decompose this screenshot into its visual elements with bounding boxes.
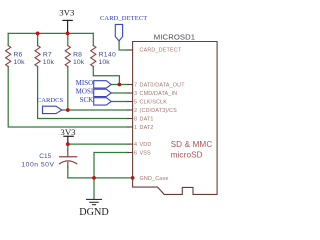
svg-text:CARD_DETECT: CARD_DETECT (140, 47, 182, 53)
svg-text:DAT2: DAT2 (140, 125, 154, 131)
svg-text:10k: 10k (13, 59, 25, 66)
svg-text:10k: 10k (43, 59, 55, 66)
svg-text:3V3: 3V3 (59, 7, 75, 17)
svg-text:7: 7 (134, 82, 137, 88)
svg-text:SD & MMC: SD & MMC (171, 140, 213, 149)
svg-text:C15: C15 (39, 153, 51, 160)
svg-text:MOSI: MOSI (76, 88, 94, 96)
svg-text:R140: R140 (99, 52, 116, 59)
svg-text:100n 50V: 100n 50V (21, 162, 54, 169)
svg-text:GND_Case: GND_Case (140, 176, 169, 182)
svg-text:MICROSD1: MICROSD1 (154, 32, 195, 41)
svg-text:CLK/SCLK: CLK/SCLK (140, 99, 168, 105)
svg-text:DAT1: DAT1 (140, 116, 154, 122)
svg-text:VSS: VSS (140, 151, 152, 157)
svg-text:VDD: VDD (140, 142, 152, 148)
svg-text:DGND: DGND (79, 207, 108, 218)
svg-text:CMD/DATA_IN: CMD/DATA_IN (140, 91, 178, 97)
svg-text:CARDCS: CARDCS (37, 97, 64, 104)
svg-text:R7: R7 (43, 52, 52, 59)
svg-text:1: 1 (134, 125, 137, 131)
svg-text:2: 2 (134, 108, 137, 114)
svg-text:DAT0/DATA_OUT: DAT0/DATA_OUT (140, 82, 186, 88)
svg-text:microSD: microSD (171, 151, 203, 160)
svg-text:3: 3 (134, 91, 137, 97)
svg-text:R8: R8 (73, 52, 82, 59)
svg-text:10k: 10k (73, 59, 85, 66)
svg-text:4: 4 (134, 142, 137, 148)
svg-text:MISO: MISO (76, 79, 94, 87)
svg-text:8: 8 (134, 116, 137, 122)
svg-text:(CD/DAT3)/CS: (CD/DAT3)/CS (140, 108, 178, 114)
svg-text:5: 5 (134, 99, 137, 105)
svg-text:SCK: SCK (80, 96, 94, 104)
svg-text:3V3: 3V3 (60, 127, 76, 137)
svg-text:R6: R6 (14, 52, 23, 59)
svg-text:10k: 10k (99, 59, 111, 66)
svg-text:CARD_DETECT: CARD_DETECT (100, 15, 147, 22)
svg-text:6: 6 (134, 151, 137, 157)
